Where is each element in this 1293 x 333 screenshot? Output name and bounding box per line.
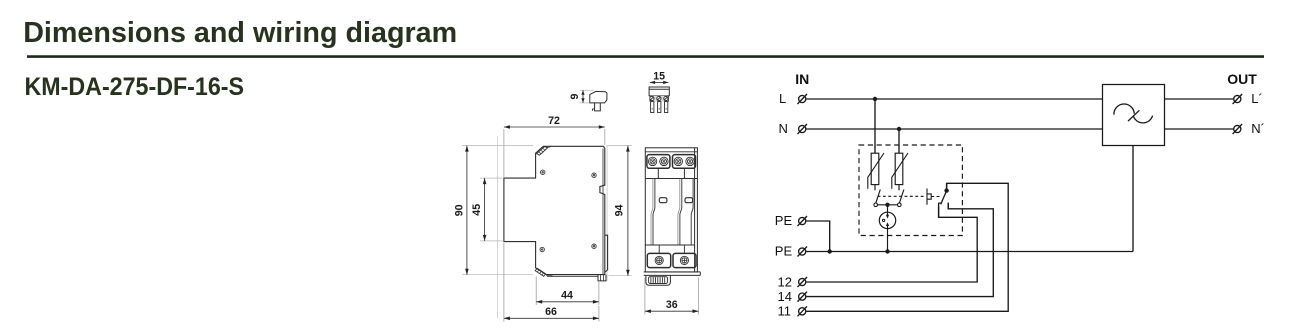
wire filter ground	[1132, 146, 1134, 252]
GDT bottom arrowhead	[886, 222, 889, 226]
dim 36 line	[645, 310, 699, 312]
side view body outline	[504, 146, 605, 274]
screw top-left	[541, 170, 545, 174]
varistor RV2 diagonal	[892, 153, 908, 189]
GDT top arrowhead	[886, 215, 889, 219]
module left edge lines	[651, 179, 653, 246]
trip latch symbol	[927, 189, 931, 205]
wire varistor1 top lead	[874, 99, 876, 153]
terminal PE upper	[798, 216, 808, 226]
bottom terminal box right	[673, 253, 696, 267]
release tab part (9 dim) body	[590, 91, 607, 103]
dim 94 line	[627, 146, 629, 276]
dim 9 extension lines	[580, 89, 595, 91]
terminal top view side walls	[650, 96, 668, 102]
GDT circle	[879, 212, 895, 228]
terminal top view screw 1	[650, 96, 654, 100]
dim 36 extension lines	[644, 278, 646, 315]
dim 66 extension lines	[503, 243, 505, 322]
top-left clip hatched	[537, 147, 551, 156]
svg-text:11: 11	[778, 304, 792, 319]
junction dot L	[873, 97, 877, 101]
dim 94 extension lines	[607, 145, 632, 147]
varistor RV2 body	[895, 153, 903, 184]
terminal top view leg 3	[665, 102, 668, 113]
svg-text:N: N	[779, 121, 788, 136]
terminal top view inner line	[649, 88, 669, 90]
front view right inner edge	[694, 148, 696, 272]
dim 72 extension lines	[503, 129, 505, 177]
trip linkage dashed line 2	[931, 196, 941, 198]
terminal top view band	[650, 96, 668, 102]
junction dot GDT-PE	[885, 249, 889, 253]
indicator window right	[685, 198, 693, 203]
title rule	[27, 55, 1264, 58]
module right edge line	[691, 179, 693, 246]
dim 90 line	[466, 146, 468, 275]
release tab leg	[595, 103, 601, 111]
front view second top line	[645, 151, 697, 153]
svg-text:14: 14	[778, 289, 792, 304]
dim 44 line	[536, 301, 599, 303]
GDT bottom lead	[887, 225, 889, 252]
disconnector common bar	[878, 204, 898, 206]
top screw 4	[686, 157, 694, 165]
filter symbol arc left	[1114, 104, 1134, 115]
release tab foot tick	[592, 109, 594, 111]
filter symbol arc right	[1133, 116, 1152, 123]
varistor RV1 diagonal	[868, 153, 884, 189]
screw bottom-right	[592, 244, 596, 248]
terminal top view screw 2	[657, 96, 661, 100]
bottom terminal stubs	[659, 245, 684, 253]
svg-text:OUT: OUT	[1227, 71, 1257, 87]
dim 15 line	[650, 81, 669, 83]
svg-text:66: 66	[545, 306, 557, 318]
terminal 11	[798, 306, 808, 316]
svg-text:L: L	[779, 91, 786, 106]
svg-text:90: 90	[454, 204, 466, 216]
body shoulder line	[645, 178, 697, 180]
bottom terminal box left	[647, 253, 670, 267]
varistor RV1 bottom lead	[874, 185, 876, 191]
side view bottom foot	[598, 275, 606, 281]
side view bottom foot inner lines	[600, 275, 602, 281]
front view outer body	[645, 148, 697, 272]
wire N	[806, 128, 1102, 130]
wire PE upper jumper	[806, 221, 830, 252]
switch pivot dot	[944, 188, 948, 192]
svg-text:KM-DA-275-DF-16-S: KM-DA-275-DF-16-S	[25, 73, 245, 101]
terminal top view leg 1	[651, 102, 654, 113]
terminal PE lower	[798, 247, 808, 257]
module divider lines	[678, 179, 680, 246]
junction dot disconnector	[885, 203, 889, 207]
wire 11	[806, 183, 1008, 311]
rail clip ridges	[651, 277, 665, 283]
svg-text:36: 36	[666, 299, 678, 311]
side view bottom edge inner line	[547, 275, 598, 277]
svg-text:PE: PE	[775, 244, 793, 259]
dim 45 line	[484, 178, 486, 241]
varistor RV1 body	[871, 153, 879, 184]
terminal top view screw 3	[664, 96, 668, 100]
svg-text:L´: L´	[1251, 91, 1263, 106]
svg-text:45: 45	[471, 204, 483, 216]
switch contact 12 lead	[938, 203, 940, 217]
switch contact 12 tick	[938, 202, 941, 204]
dim 72 line	[504, 126, 605, 128]
GDT top lead	[887, 205, 889, 216]
filter box	[1103, 85, 1165, 146]
top terminal box right	[673, 155, 696, 169]
front view lower body line	[645, 244, 694, 246]
disconnector blade right	[899, 190, 904, 204]
junction dot PE jumper	[828, 249, 832, 253]
svg-text:IN: IN	[795, 71, 809, 87]
svg-text:9: 9	[569, 93, 581, 99]
svg-text:44: 44	[561, 290, 573, 302]
top screw 2	[660, 157, 668, 165]
wire N'	[1165, 128, 1234, 130]
svg-text:PE: PE	[775, 213, 793, 228]
projection line left	[497, 136, 499, 318]
rail clip foot inner	[649, 277, 668, 284]
svg-text:N´: N´	[1251, 121, 1265, 136]
GDT electrode dot	[882, 219, 884, 221]
wire 12	[806, 207, 977, 282]
dim 44 extension lines	[535, 277, 537, 306]
terminal top view (15) box	[649, 87, 669, 96]
terminal 12	[798, 277, 808, 287]
svg-text:12: 12	[778, 274, 792, 289]
bottom screw left	[655, 256, 663, 264]
top terminal stubs	[658, 168, 684, 178]
rail clip foot outline	[646, 275, 671, 285]
filter symbol slash	[1128, 110, 1139, 121]
disconnector contact left	[874, 203, 878, 207]
varistor RV2 bottom lead	[898, 185, 900, 191]
DIN rail lines	[644, 272, 701, 276]
svg-text:72: 72	[548, 115, 560, 127]
wire L'	[1165, 98, 1234, 100]
terminal 14	[798, 292, 808, 302]
terminal N' out	[1233, 124, 1243, 134]
svg-text:15: 15	[653, 70, 665, 82]
projection line right	[606, 146, 608, 281]
disconnector blade left	[876, 190, 881, 204]
switch pivot lead	[946, 183, 948, 190]
top screw 1	[648, 157, 656, 165]
terminal top view leg 2	[658, 102, 661, 113]
dim 45 extension lines	[480, 177, 503, 179]
side view inner wall line	[602, 149, 604, 275]
trip linkage dashed line	[878, 195, 926, 197]
disconnector contact right	[898, 203, 902, 207]
dim 9 line	[582, 90, 584, 103]
terminal N	[798, 124, 808, 134]
terminal top view leg ticks	[652, 108, 667, 110]
terminal L	[798, 94, 808, 104]
dim 90 extension lines	[462, 145, 533, 147]
svg-text:Dimensions and wiring diagram: Dimensions and wiring diagram	[23, 17, 457, 49]
bottom screw right	[680, 256, 688, 264]
wire 14	[806, 203, 993, 297]
bottom-left clip hatched	[535, 268, 552, 276]
SPD dashed enclosure	[859, 145, 962, 236]
wire varistor2 top lead	[898, 129, 900, 153]
screw top-right	[592, 173, 596, 177]
junction dot N	[897, 127, 901, 131]
top screw 3	[674, 157, 682, 165]
svg-text:94: 94	[614, 205, 626, 217]
terminal L' out	[1233, 94, 1243, 104]
wire PE bus	[806, 251, 1133, 253]
switch contact 14 lead	[947, 203, 949, 209]
top terminal box left	[647, 155, 670, 169]
dim 66 line	[504, 317, 599, 319]
indicator window left	[659, 198, 667, 203]
switch blade	[941, 191, 947, 204]
wire L	[806, 98, 1102, 100]
screw bottom-left	[540, 247, 544, 251]
side view DIN hook	[605, 235, 608, 272]
